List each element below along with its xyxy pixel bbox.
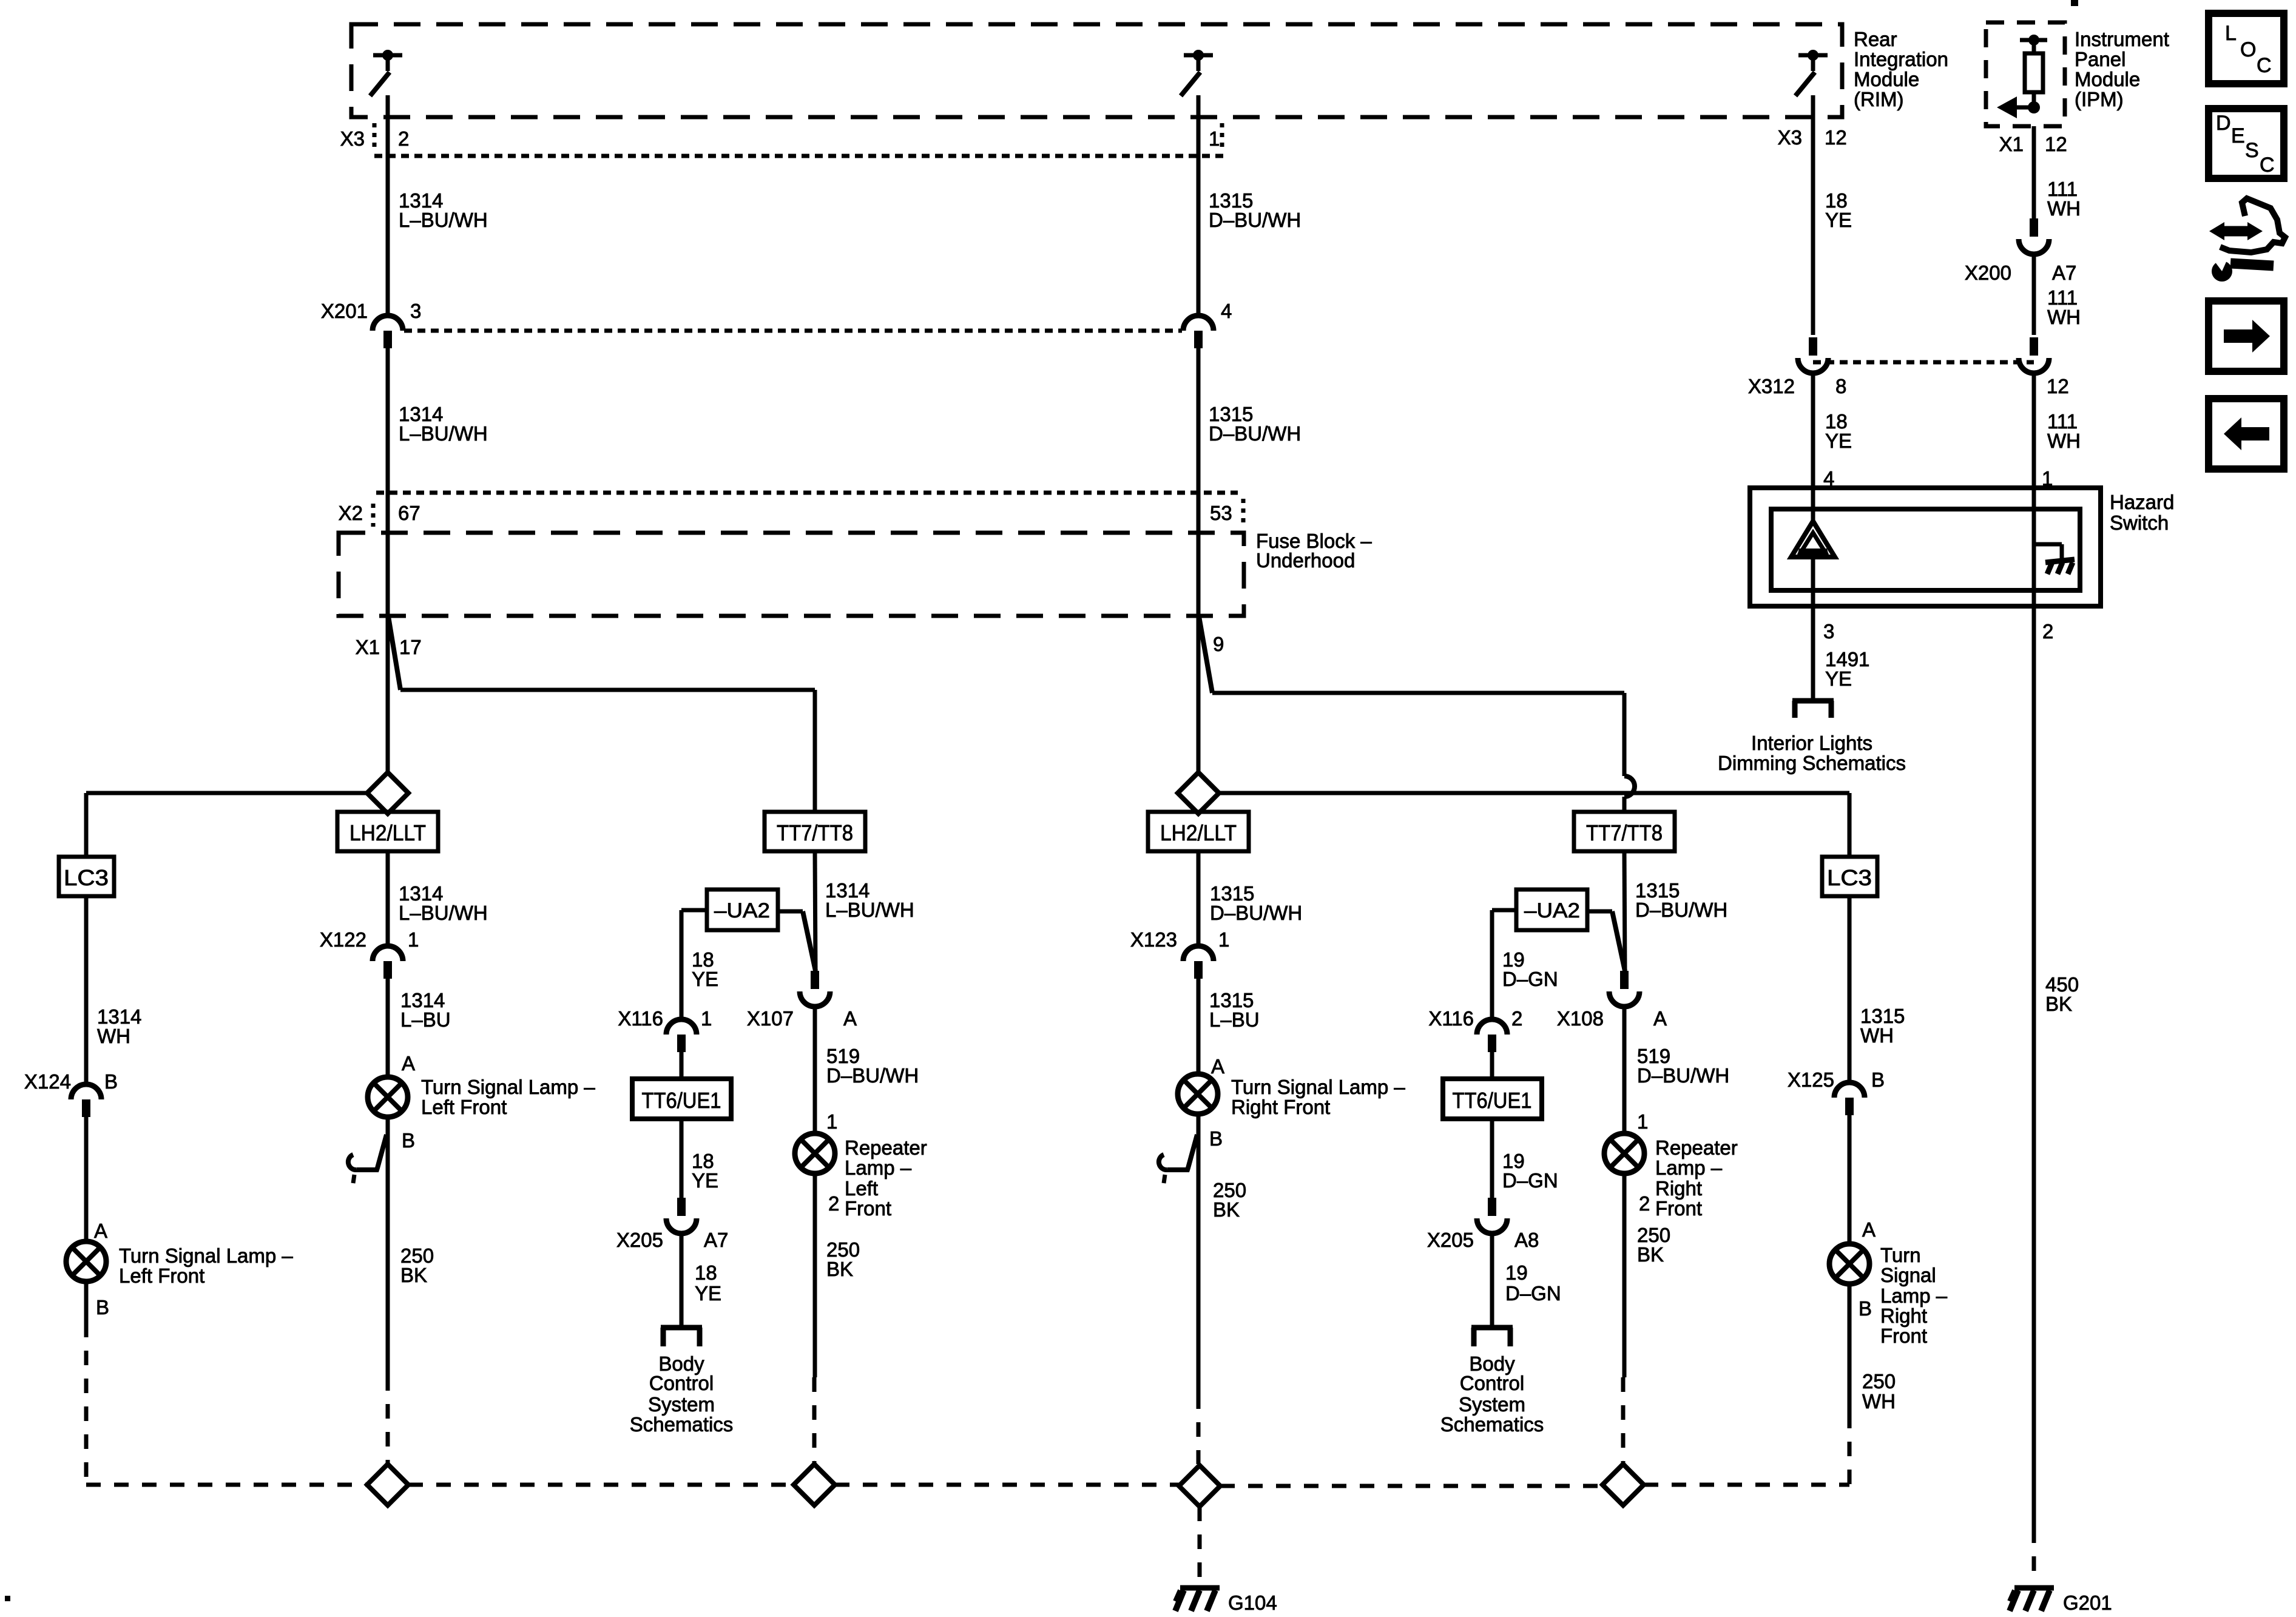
svg-text:Schematics: Schematics [1440, 1413, 1544, 1436]
svg-text:2: 2 [398, 127, 409, 150]
wire label 1315 D-BU/WH (below tag right) [1210, 882, 1302, 924]
ground bus dashed segment 5 [1644, 1483, 1849, 1487]
dashed wire to G201 [2032, 1528, 2036, 1578]
wire 1314 through fuse block [386, 533, 390, 616]
pin 17 label [399, 636, 422, 658]
svg-text:LC3: LC3 [1827, 865, 1872, 890]
svg-text:19: 19 [1505, 1261, 1528, 1284]
pin A label (left lamp) [402, 1052, 415, 1075]
pin 12 label (RIM X3) [1825, 126, 1847, 149]
svg-text:YE: YE [1825, 667, 1852, 690]
svg-text:System: System [648, 1393, 715, 1416]
pin A label (right lamp) [1211, 1055, 1224, 1078]
wire label 1314 L-BU [400, 989, 451, 1031]
junction diamond right [1178, 772, 1219, 814]
wire 111 WH X312 to hazard switch [2032, 373, 2036, 544]
wire label 1315 D-BU/WH (second) [1209, 403, 1301, 445]
svg-text:WH: WH [2047, 306, 2081, 328]
branch wire hop to TT7/TT8 right tag [1622, 797, 1627, 812]
svg-text:LH2/LLT: LH2/LLT [349, 820, 426, 845]
pin A label (left outer lamp) [94, 1220, 107, 1242]
svg-text:2: 2 [1511, 1007, 1522, 1030]
wire below right lamp 250 BK [1197, 1114, 1201, 1394]
off-page symbol to interior lights dimming [1792, 701, 1834, 718]
X201 row dashed line [404, 329, 1182, 333]
label X205 right [1427, 1229, 1474, 1251]
svg-text:E: E [2231, 124, 2245, 147]
pin B label (left lamp) [402, 1129, 415, 1152]
wire 1315 X1.9 down to junction diamond [1197, 616, 1201, 772]
pin 1 label (hazard) [2042, 467, 2053, 490]
connector X312 pin 12 [2019, 337, 2049, 373]
Fuse Block - Underhood label [1256, 530, 1372, 572]
bus diamond 3 [1179, 1465, 1220, 1507]
svg-text:X2: X2 [339, 502, 363, 524]
pin 2 label [398, 127, 409, 150]
svg-text:B: B [96, 1296, 109, 1318]
label Turn Signal Lamp - Right Front (outer) [1880, 1244, 1948, 1347]
connector X124 pin B [71, 1084, 101, 1117]
svg-text:18: 18 [695, 1261, 717, 1284]
svg-text:X107: X107 [747, 1007, 794, 1030]
connector X201 pin 4 [1183, 316, 1214, 348]
wire 1491 YE below hazard [1811, 626, 1815, 699]
svg-text:D–GN: D–GN [1502, 968, 1558, 990]
pin 1 label (X116) [701, 1007, 712, 1030]
ground G201 [2010, 1588, 2054, 1611]
svg-text:D–BU/WH: D–BU/WH [1209, 422, 1301, 445]
turn signal lamp right front (outer) [1829, 1244, 1869, 1284]
X3 connector row dashed line [374, 154, 1223, 158]
branch wire diagonal from X1.9 [1199, 616, 1212, 693]
pin 1 label (repeater left) [826, 1110, 837, 1133]
svg-text:Front: Front [1880, 1325, 1927, 1347]
svg-text:A: A [94, 1220, 107, 1242]
wire 111 WH X200 to X312 row [2032, 254, 2036, 335]
RIM internal switch S2 (middle, X3 pin 1) [1181, 50, 1213, 96]
label X3 [340, 127, 365, 150]
ground bus elbow left [84, 1483, 89, 1487]
label X312 [1748, 375, 1795, 397]
svg-text:X201: X201 [321, 300, 368, 322]
TT7/TT8 tag box left [765, 812, 865, 851]
svg-text:G201: G201 [2063, 1592, 2112, 1614]
wire label 250 WH [1862, 1370, 1896, 1413]
wire below TT7/TT8 right [1624, 851, 1625, 971]
svg-text:L–BU: L–BU [400, 1008, 451, 1031]
svg-text:WH: WH [2047, 430, 2081, 452]
pin 3 label (hazard) [1823, 620, 1834, 643]
dashed wire to ground bus (LH2 left) [386, 1376, 390, 1464]
svg-text:Repeater: Repeater [1655, 1136, 1738, 1159]
svg-text:A: A [843, 1007, 857, 1030]
svg-text:X108: X108 [1557, 1007, 1604, 1030]
wire label 111 WH (2) [2047, 286, 2081, 328]
hazard switch outer box [1750, 488, 2101, 606]
svg-text:250: 250 [1862, 1370, 1896, 1393]
svg-text:D: D [2216, 112, 2231, 135]
sidebar DESC icon [2209, 109, 2284, 178]
pin A label (X107) [843, 1007, 857, 1030]
svg-text:TT6/UE1: TT6/UE1 [642, 1088, 721, 1113]
label Repeater Lamp - Right Front [1655, 1136, 1738, 1220]
bus diamond 2 [794, 1464, 835, 1505]
svg-text:Right Front: Right Front [1231, 1096, 1330, 1118]
svg-text:2: 2 [2042, 620, 2053, 643]
label G104 [1228, 1592, 1277, 1614]
svg-text:Left Front: Left Front [119, 1264, 204, 1287]
wire label 1315 D-BU/WH (upper) [1209, 189, 1301, 231]
wire 18 YE to X312 [1811, 156, 1815, 335]
svg-text:YE: YE [1825, 430, 1852, 452]
svg-text:D–GN: D–GN [1505, 1282, 1561, 1305]
svg-text:Panel: Panel [2075, 48, 2125, 70]
wire label 519 D-BU/WH (right) [1637, 1045, 1729, 1087]
pin A label (right outer lamp) [1862, 1218, 1876, 1241]
svg-text:2: 2 [1639, 1192, 1650, 1215]
svg-text:BK: BK [826, 1258, 853, 1280]
label X3 (right) [1778, 126, 1802, 149]
label G201 [2063, 1592, 2112, 1614]
connector X205 pin A7 [666, 1198, 697, 1234]
svg-text:L–BU/WH: L–BU/WH [399, 209, 488, 231]
hazard switch label [2110, 491, 2174, 534]
connector X125 pin B [1834, 1082, 1865, 1115]
label X125 [1788, 1068, 1834, 1091]
wire -UA2 right-left side to X116-2 branch [1492, 910, 1516, 1020]
svg-text:X200: X200 [1965, 262, 2011, 284]
branch wire horizontal to TT7/TT8 left [400, 688, 815, 692]
wire 1315 X3.1 to X201.4 [1197, 156, 1201, 316]
turn signal lamp left front (inner) [368, 1077, 408, 1117]
label Turn Signal Lamp - Right Front (inner) [1231, 1076, 1405, 1118]
svg-text:D–BU/WH: D–BU/WH [1209, 209, 1301, 231]
svg-text:X116: X116 [1428, 1007, 1474, 1030]
svg-text:Turn Signal Lamp –: Turn Signal Lamp – [119, 1244, 293, 1267]
sidebar prev-page icon (left arrow) [2209, 399, 2284, 469]
X312 row dashed line [1813, 360, 2034, 365]
svg-text:X3: X3 [1778, 126, 1802, 149]
TT6/UE1 tag box left [632, 1079, 731, 1119]
dashed wire to bus (repeater left) [812, 1377, 817, 1464]
wire X122 to lamp A [386, 979, 390, 1077]
LC3 tag box left [59, 857, 114, 896]
wire label 1315 L-BU [1209, 989, 1260, 1031]
label Interior Lights Dimming Schematics [1718, 732, 1906, 774]
wire 450 BK hazard pin 2 to G201 [2032, 626, 2036, 1528]
svg-text:Control: Control [1460, 1372, 1524, 1394]
svg-text:A7: A7 [704, 1229, 728, 1251]
svg-text:Turn Signal Lamp –: Turn Signal Lamp – [1231, 1076, 1405, 1098]
svg-text:TT6/UE1: TT6/UE1 [1453, 1088, 1532, 1113]
label X124 [24, 1070, 71, 1093]
LC3 right branch wire down [1848, 793, 1852, 857]
svg-text:2: 2 [828, 1192, 839, 1215]
svg-text:X205: X205 [1427, 1229, 1474, 1251]
X2 row dotted stub right [1241, 499, 1246, 523]
svg-text:1: 1 [1209, 127, 1220, 150]
wire label 1314 L-BU/WH (upper left) [399, 189, 488, 231]
svg-text:1: 1 [1637, 1110, 1648, 1133]
option tag -UA2 right [1516, 890, 1587, 930]
connector X116 pin 1 [666, 1019, 697, 1052]
svg-text:Repeater: Repeater [845, 1136, 927, 1159]
svg-text:1: 1 [826, 1110, 837, 1133]
svg-text:C: C [2257, 54, 2272, 77]
turn signal lamp right front (inner) [1178, 1074, 1218, 1114]
svg-text:D–GN: D–GN [1502, 1169, 1558, 1192]
wire X108 to repeater lamp right [1622, 1006, 1627, 1133]
svg-text:Rear: Rear [1854, 28, 1897, 50]
svg-text:YE: YE [692, 968, 718, 990]
X2 connector row dashed line [376, 491, 1238, 495]
wire from triangle to pin 3 [1811, 559, 1815, 626]
svg-text:C: C [2260, 154, 2275, 177]
junction diamond left [367, 772, 408, 814]
label X123 [1130, 928, 1177, 951]
branch wire diagonal from X1.17 [388, 616, 400, 690]
svg-text:O: O [2240, 38, 2256, 61]
wire below left outer lamp [84, 1281, 89, 1323]
svg-text:X123: X123 [1130, 928, 1177, 951]
wire X116-2 to TT6/UE1 right [1490, 1052, 1494, 1079]
label X107 [747, 1007, 794, 1030]
connector X116 pin 2 [1477, 1019, 1507, 1052]
wire label 1314 L-BU/WH (below tag) [399, 882, 488, 924]
pin A7 label (X200) [2052, 262, 2076, 284]
svg-text:X124: X124 [24, 1070, 71, 1093]
dashed wire to bus (LH2 right) [1197, 1394, 1201, 1464]
svg-text:12: 12 [2047, 375, 2069, 397]
pin 1 label (X122) [408, 928, 419, 951]
svg-text:4: 4 [1221, 300, 1232, 322]
svg-text:L–BU/WH: L–BU/WH [825, 899, 914, 921]
svg-text:Lamp –: Lamp – [1655, 1156, 1723, 1179]
hazard warning triangle [1791, 521, 1835, 557]
wire below repeater left 250 BK [813, 1173, 817, 1377]
connector X201 pin 3 [373, 316, 403, 348]
svg-text:Front: Front [845, 1197, 891, 1220]
pin 2 label (hazard) [2042, 620, 2053, 643]
sidebar LOC icon [2209, 13, 2284, 84]
svg-text:1: 1 [408, 928, 419, 951]
ground G104 [1175, 1588, 1220, 1611]
wire below LC3 left [84, 896, 89, 1085]
svg-text:Dimming Schematics: Dimming Schematics [1718, 752, 1906, 774]
wire label 519 D-BU/WH (left) [826, 1045, 919, 1087]
svg-text:Schematics: Schematics [630, 1413, 734, 1436]
svg-text:(IPM): (IPM) [2075, 88, 2124, 110]
svg-text:Front: Front [1655, 1197, 1702, 1220]
ground bus dashed segment 1 [86, 1483, 367, 1487]
svg-text:A: A [1862, 1218, 1876, 1241]
pin 8 label [1835, 375, 1846, 397]
Instrument Panel Module (IPM) dashed box [1986, 22, 2065, 126]
X2 row dotted stub left [371, 504, 376, 527]
pin A label (X108) [1653, 1007, 1667, 1030]
wire label 1315 D-BU/WH (repeater right) [1635, 879, 1727, 921]
svg-text:S: S [2245, 139, 2259, 162]
wire label 18 YE (below X205) [695, 1261, 721, 1305]
branch wire down to hop [1622, 693, 1627, 776]
pin 1 label (X123) [1218, 928, 1229, 951]
svg-text:L–BU/WH: L–BU/WH [399, 422, 488, 445]
wire below TT7/TT8 left [815, 851, 815, 971]
wire X205 to off-page left [680, 1233, 684, 1328]
IPM module label [2075, 28, 2169, 110]
svg-text:B: B [104, 1070, 118, 1093]
pin 1 label (repeater right) [1637, 1110, 1648, 1133]
svg-text:(RIM): (RIM) [1854, 88, 1903, 110]
svg-text:Hazard: Hazard [2110, 491, 2174, 513]
sidebar next-page icon (right arrow) [2209, 301, 2284, 371]
svg-text:TT7/TT8: TT7/TT8 [777, 820, 853, 845]
svg-text:Integration: Integration [1854, 48, 1948, 70]
wire 18 YE from S3 [1811, 95, 1815, 156]
svg-text:3: 3 [1823, 620, 1834, 643]
wire label 1314 WH (left) [97, 1005, 141, 1047]
pin B label (X124) [104, 1070, 118, 1093]
svg-text:1: 1 [701, 1007, 712, 1030]
svg-text:B: B [1871, 1068, 1885, 1091]
connector X200 pin A7 [2019, 218, 2049, 254]
wire 18 YE X312 to hazard switch [1811, 373, 1815, 488]
distribution wire to LC3 right [1219, 791, 1849, 795]
wire label 19 D-GN (above X116-2) [1502, 948, 1558, 990]
pin B label below left outer lamp [96, 1296, 109, 1318]
option tag -UA2 left [707, 890, 778, 930]
svg-text:Right: Right [1880, 1305, 1927, 1327]
ground bus dashed segment 3 [835, 1483, 1179, 1487]
svg-text:WH: WH [1862, 1390, 1896, 1413]
wire label 250 BK (right) [1213, 1179, 1246, 1221]
svg-text:X1: X1 [356, 636, 380, 658]
svg-text:A7: A7 [2052, 262, 2076, 284]
wire 1314 from S1 to X3 pin 2 [386, 95, 390, 156]
wire label 18 YE (upper) [1825, 189, 1852, 231]
wire label 450 BK [2045, 973, 2079, 1015]
svg-text:Right: Right [1655, 1177, 1702, 1200]
svg-text:X3: X3 [340, 127, 365, 150]
svg-text:Left: Left [845, 1177, 878, 1200]
wire -UA2 right-right side diagonal to X108 [1587, 911, 1625, 971]
svg-text:LC3: LC3 [64, 865, 109, 890]
svg-text:67: 67 [398, 502, 420, 524]
pin 12 label (X312) [2047, 375, 2069, 397]
branch wire down to TT7/TT8 left tag [813, 690, 817, 812]
wire X123 to right lamp A [1197, 979, 1201, 1074]
svg-text:YE: YE [692, 1169, 718, 1192]
RIM internal switch S1 (left, X3 pin 2) [370, 50, 402, 96]
label X1 (IPM) [1999, 133, 2024, 155]
svg-text:A: A [402, 1052, 415, 1075]
wire label 18 YE (above X116) [692, 948, 718, 990]
label X1 [356, 636, 380, 658]
svg-text:X1: X1 [1999, 133, 2024, 155]
wire LH2/LLT right to X123 [1197, 851, 1201, 947]
svg-text:BK: BK [1637, 1243, 1664, 1266]
svg-text:YE: YE [695, 1282, 721, 1305]
svg-text:17: 17 [399, 636, 422, 658]
pin 2 label (X116) [1511, 1007, 1522, 1030]
connector X312 pin 8 [1798, 337, 1828, 373]
svg-text:BK: BK [400, 1264, 427, 1286]
TT6/UE1 tag box right [1443, 1079, 1542, 1119]
wire X107 to repeater lamp left [813, 1006, 817, 1133]
hazard internal chassis ground [2045, 559, 2075, 574]
svg-text:L–BU: L–BU [1209, 1008, 1260, 1031]
label Repeater Lamp - Left Front [845, 1136, 927, 1220]
svg-text:3: 3 [410, 300, 421, 322]
X3 row dotted stub right [1220, 123, 1224, 152]
turn signal lamp left front (outer) [66, 1241, 106, 1281]
wire below left lamp 250 BK [386, 1117, 390, 1376]
svg-text:D–BU/WH: D–BU/WH [1637, 1064, 1729, 1087]
svg-text:A: A [1653, 1007, 1667, 1030]
label X116 [618, 1007, 663, 1030]
Fuse Block - Underhood dashed box [339, 533, 1244, 616]
svg-text:B: B [1209, 1127, 1223, 1150]
wire 1314 X3.2 to X201.3 [386, 156, 390, 316]
dashed wire to bus (repeater right) [1621, 1377, 1626, 1464]
wire label 111 WH (3) [2047, 410, 2081, 452]
sidebar service icon (arrow and wrench) [2209, 198, 2285, 282]
lamp case ground hook left [348, 1135, 387, 1183]
wire -UA2 left side to X116 branch [681, 910, 707, 1020]
Rear Integration Module (RIM) dashed box [351, 24, 1842, 117]
wire label 19 D-GN (below TT6 right) [1502, 1150, 1558, 1192]
LC3 left branch wire down [84, 793, 89, 857]
pin B label below right outer lamp [1859, 1297, 1872, 1320]
pin 2 label (repeater right) [1639, 1192, 1650, 1215]
dashed wire diamond3 to G104 [1198, 1507, 1202, 1578]
LH2/LLT tag box right [1148, 812, 1249, 851]
svg-text:Lamp –: Lamp – [1880, 1284, 1948, 1307]
label X200 [1965, 262, 2011, 284]
page artifact dot bottom left [5, 1596, 10, 1601]
hazard internal ground hook [2034, 544, 2062, 562]
distribution wire to LC3 left [86, 791, 367, 795]
wire 1314 X1.17 down to junction diamond [386, 616, 390, 772]
wire hazard pin1 to pin2 through switch [2032, 544, 2036, 626]
wire label 18 YE (lower) [1825, 410, 1852, 452]
pin B label (right lamp) [1209, 1127, 1223, 1150]
svg-text:BK: BK [1213, 1198, 1240, 1221]
svg-text:WH: WH [2047, 197, 2081, 220]
repeater lamp left front [795, 1133, 835, 1173]
svg-text:Turn: Turn [1880, 1244, 1921, 1266]
svg-text:WH: WH [1860, 1024, 1894, 1047]
wire below LC3 right [1848, 896, 1852, 1083]
wire 1315 from S2 to X3 pin 1 [1197, 95, 1201, 156]
svg-text:YE: YE [1825, 209, 1852, 231]
wire label 250 BK (repeater right) [1637, 1224, 1670, 1266]
LH2/LLT tag box left [337, 812, 438, 851]
wire LH2/LLT to X122 [386, 851, 390, 947]
wire label 19 D-GN (below X205 right) [1505, 1261, 1561, 1305]
wire 111 WH from IPM [2032, 126, 2036, 218]
svg-text:D–BU/WH: D–BU/WH [1210, 902, 1302, 924]
pin 1 label [1209, 127, 1220, 150]
svg-text:X312: X312 [1748, 375, 1795, 397]
hazard switch inner box [1771, 509, 2080, 590]
connector X123 pin 1 [1183, 946, 1214, 979]
pin 4 label (hazard) [1823, 467, 1834, 490]
svg-text:Underhood: Underhood [1256, 549, 1355, 572]
svg-text:Module: Module [1854, 68, 1919, 90]
wire below TT6/UE1 left [680, 1119, 684, 1198]
svg-text:D–BU/WH: D–BU/WH [1635, 899, 1727, 921]
